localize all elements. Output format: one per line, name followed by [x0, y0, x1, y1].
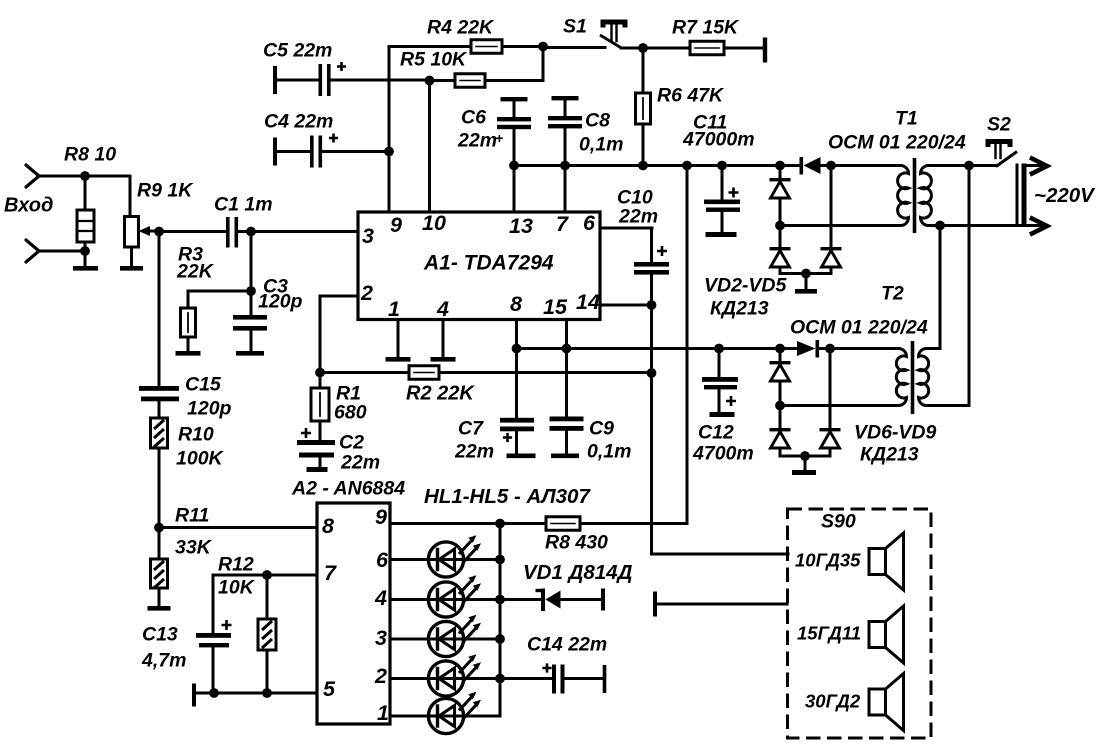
svg-text:120p: 120p	[187, 397, 232, 419]
svg-text:S1: S1	[563, 15, 587, 37]
svg-text:680: 680	[334, 401, 367, 423]
svg-text:VD1 Д814Д: VD1 Д814Д	[523, 561, 633, 584]
svg-text:4: 4	[374, 586, 387, 610]
svg-text:22m: 22m	[618, 205, 658, 227]
svg-text:C6: C6	[461, 106, 486, 128]
svg-text:0,1m: 0,1m	[587, 440, 631, 462]
svg-text:C14 22m: C14 22m	[527, 633, 607, 655]
svg-text:C13: C13	[142, 623, 178, 645]
svg-text:T2: T2	[881, 282, 904, 304]
svg-text:КД213: КД213	[860, 443, 919, 465]
svg-text:R7 15K: R7 15K	[672, 16, 740, 38]
svg-text:22m: 22m	[454, 440, 494, 462]
svg-text:HL1-HL5 - АЛ307: HL1-HL5 - АЛ307	[424, 485, 591, 508]
svg-text:Вход: Вход	[4, 195, 53, 217]
svg-text:C2: C2	[339, 431, 364, 453]
svg-text:9: 9	[390, 213, 402, 237]
svg-text:5: 5	[323, 677, 336, 701]
svg-text:C9: C9	[589, 417, 614, 439]
svg-text:1: 1	[388, 297, 400, 321]
svg-text:13: 13	[509, 214, 533, 238]
svg-text:R12: R12	[218, 553, 254, 575]
svg-text:VD2-VD5: VD2-VD5	[704, 274, 788, 296]
svg-text:4: 4	[436, 297, 449, 321]
svg-text:R8 430: R8 430	[545, 531, 608, 553]
svg-text:C8: C8	[585, 109, 610, 131]
svg-text:33K: 33K	[175, 536, 213, 558]
svg-text:6: 6	[583, 211, 596, 235]
svg-text:8: 8	[322, 514, 334, 538]
svg-text:R9 1K: R9 1K	[137, 179, 194, 201]
svg-text:100K: 100K	[176, 447, 225, 469]
svg-text:6: 6	[376, 548, 389, 572]
svg-text:C5 22m: C5 22m	[263, 39, 332, 61]
svg-text:2: 2	[374, 664, 387, 688]
svg-text:2: 2	[360, 281, 373, 305]
svg-text:14: 14	[576, 290, 600, 314]
svg-text:15ГД11: 15ГД11	[797, 623, 861, 644]
svg-text:4,7m: 4,7m	[141, 649, 186, 671]
svg-text:C12: C12	[698, 421, 734, 443]
svg-text:30ГД2: 30ГД2	[805, 691, 861, 712]
svg-text:3: 3	[362, 224, 374, 248]
svg-text:22m: 22m	[340, 451, 380, 473]
svg-text:15: 15	[543, 295, 568, 319]
svg-text:3: 3	[375, 626, 387, 650]
svg-text:ОСМ 01 220/24: ОСМ 01 220/24	[790, 316, 928, 338]
svg-text:R11: R11	[175, 504, 209, 526]
svg-text:1: 1	[377, 701, 389, 725]
svg-text:+: +	[495, 130, 503, 146]
svg-text:10K: 10K	[218, 576, 256, 598]
svg-text:A1- TDA7294: A1- TDA7294	[423, 251, 554, 274]
svg-text:8: 8	[510, 292, 522, 316]
svg-text:0,1m: 0,1m	[579, 133, 623, 155]
svg-text:C15: C15	[185, 373, 222, 395]
svg-text:10: 10	[422, 211, 446, 235]
svg-text:КД213: КД213	[710, 297, 769, 319]
svg-text:120p: 120p	[258, 290, 303, 312]
svg-text:T1: T1	[895, 107, 918, 129]
svg-text:~220V: ~220V	[1034, 184, 1096, 207]
svg-text:R8 10: R8 10	[64, 143, 116, 165]
svg-text:S2: S2	[987, 113, 1011, 135]
svg-text:VD6-VD9: VD6-VD9	[854, 421, 937, 443]
svg-text:A2 - AN6884: A2 - AN6884	[291, 477, 405, 499]
svg-text:R2 22K: R2 22K	[406, 383, 475, 405]
svg-text:R4 22K: R4 22K	[427, 16, 495, 38]
svg-text:22K: 22K	[176, 260, 215, 282]
svg-text:10ГД35: 10ГД35	[795, 550, 861, 571]
svg-text:R5 10K: R5 10K	[400, 48, 468, 70]
svg-text:C4 22m: C4 22m	[264, 110, 333, 132]
svg-text:47000m: 47000m	[682, 128, 755, 150]
svg-text:4700m: 4700m	[692, 442, 754, 464]
svg-text:9: 9	[375, 505, 387, 529]
svg-text:C1 1m: C1 1m	[214, 193, 273, 215]
svg-text:R10: R10	[178, 423, 214, 445]
svg-text:ОСМ 01 220/24: ОСМ 01 220/24	[828, 131, 966, 153]
svg-text:7: 7	[556, 212, 569, 236]
svg-text:S90: S90	[821, 510, 856, 532]
svg-text:22m: 22m	[457, 129, 497, 151]
svg-text:7: 7	[324, 561, 337, 585]
svg-text:R6 47K: R6 47K	[657, 84, 725, 106]
svg-text:C7: C7	[458, 417, 484, 439]
